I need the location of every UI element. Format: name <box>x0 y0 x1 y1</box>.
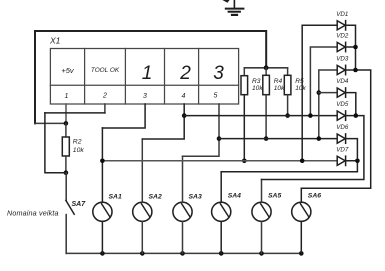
wire VD6 anode line <box>219 138 337 140</box>
wire VD5 cathode and group bus to SA5 <box>262 116 364 180</box>
node bus SA6 <box>299 251 304 256</box>
wire VD1 cathode to bus1 <box>346 25 356 70</box>
node R2 bottom junction <box>64 170 69 175</box>
resistor R2 <box>65 123 67 137</box>
node VD3 drop / VD6 line <box>317 136 322 141</box>
svg-text:+5v: +5v <box>61 66 75 75</box>
switch SA1 <box>93 128 122 253</box>
resistor R4 <box>263 68 285 139</box>
svg-text:SA1: SA1 <box>109 194 122 201</box>
svg-text:VD4: VD4 <box>336 78 349 85</box>
svg-text:VD1: VD1 <box>336 11 348 18</box>
node SA1 / VD7 line <box>100 159 105 164</box>
switch SA2 <box>133 139 162 253</box>
svg-text:10k: 10k <box>295 85 306 92</box>
svg-text:5: 5 <box>214 93 218 100</box>
wire left drop to R2 bottom <box>45 113 66 173</box>
svg-text:3: 3 <box>213 63 224 84</box>
node VD3 drop / VD4 anode <box>317 90 322 95</box>
resistor R3 <box>241 68 263 161</box>
node pin4 / VD5 line <box>182 113 187 118</box>
switch SA5 <box>252 180 282 254</box>
wire VD7 cathode and group bus to SA4 <box>221 161 357 172</box>
wire pin2 down <box>104 104 106 113</box>
wire pin2 left <box>45 112 105 114</box>
svg-text:VD2: VD2 <box>336 33 349 40</box>
node VD6/VD7 cathodes <box>355 159 360 164</box>
connector X1 outline (+5v distribution wire) <box>35 31 266 123</box>
node bus SA5 <box>259 251 264 256</box>
wire VD5 anode line <box>184 115 337 117</box>
node R4 / VD6 line <box>264 136 269 141</box>
svg-text:SA3: SA3 <box>189 194 202 201</box>
wire VD2 cathode <box>346 46 356 48</box>
diode VD7 <box>337 156 345 165</box>
node R3 / VD7 line <box>242 159 247 164</box>
ground <box>222 0 243 15</box>
wire VD3 cathode and group bus to SA6 <box>301 70 370 188</box>
node VD4/VD5 cathodes <box>354 113 359 118</box>
svg-text:10k: 10k <box>252 85 263 92</box>
diode VD6 <box>337 134 345 143</box>
svg-text:1: 1 <box>142 63 153 84</box>
resistor top bus <box>244 67 287 69</box>
node VD2 drop / VD5 line <box>308 113 313 118</box>
svg-text:10k: 10k <box>73 147 85 154</box>
svg-text:SA2: SA2 <box>149 194 162 201</box>
svg-text:R3: R3 <box>252 78 261 85</box>
wire pin4 to SA2 <box>142 104 184 139</box>
wire VD4 cathode down <box>346 93 356 116</box>
wire VD6 cathode down <box>346 139 358 161</box>
wire ground bus <box>66 252 301 254</box>
svg-text:4: 4 <box>182 93 186 100</box>
node +5v / resistor bus <box>264 65 269 70</box>
node bus SA2 <box>140 251 145 256</box>
svg-text:R2: R2 <box>73 138 82 145</box>
svg-text:VD5: VD5 <box>336 101 349 108</box>
wire VD7 anode line <box>102 160 337 162</box>
switch SA3 <box>173 156 202 253</box>
wire VD3 anode drop <box>319 70 337 139</box>
node bus SA3 <box>180 251 185 256</box>
svg-text:X1: X1 <box>49 36 61 46</box>
diode VD5 <box>337 111 345 120</box>
switch SA7 <box>65 173 67 201</box>
switch SA4 <box>212 172 242 254</box>
node bus SA4 <box>219 251 224 256</box>
svg-text:Nomaina veikta: Nomaina veikta <box>7 209 59 218</box>
wire pin3 to SA1 <box>102 104 145 128</box>
node VD1 drop / VD7 line <box>300 159 305 164</box>
node R5 / VD5 line <box>285 113 290 118</box>
node bus SA1 <box>100 251 105 256</box>
wire VD4 anode <box>319 92 337 94</box>
wire pin5 to SA3 <box>183 104 220 156</box>
node VD1/VD2 cathodes <box>353 45 358 50</box>
resistor R5 <box>284 68 306 116</box>
svg-text:SA5: SA5 <box>268 192 281 199</box>
diode VD2 <box>337 42 345 51</box>
wire VD1 anode drop <box>302 25 337 161</box>
node VD3 cathode / bus1 <box>353 68 358 73</box>
diode VD4 <box>337 88 345 97</box>
connector table X1 <box>50 49 238 105</box>
diode VD1 <box>337 21 345 30</box>
svg-text:SA4: SA4 <box>228 192 241 199</box>
node pin1/R2 junction <box>64 121 69 126</box>
svg-text:3: 3 <box>143 93 147 100</box>
node pin5 / VD6 line <box>217 136 222 141</box>
svg-text:TOOL OK: TOOL OK <box>91 67 120 74</box>
wire VD2 anode drop <box>310 47 337 116</box>
svg-text:R4: R4 <box>274 78 283 85</box>
svg-text:VD3: VD3 <box>336 56 349 63</box>
svg-text:1: 1 <box>65 93 69 100</box>
svg-text:VD7: VD7 <box>336 146 349 153</box>
switch SA6 <box>292 188 322 253</box>
svg-text:2: 2 <box>102 93 107 100</box>
wire +5v node to left rail <box>35 122 66 124</box>
svg-text:2: 2 <box>179 63 191 84</box>
svg-text:VD6: VD6 <box>336 124 349 131</box>
wire pin1 to R2 top node <box>65 104 67 123</box>
svg-text:SA6: SA6 <box>308 192 321 199</box>
svg-text:10k: 10k <box>274 85 285 92</box>
svg-text:SA7: SA7 <box>72 201 87 208</box>
diode VD3 <box>337 65 345 74</box>
